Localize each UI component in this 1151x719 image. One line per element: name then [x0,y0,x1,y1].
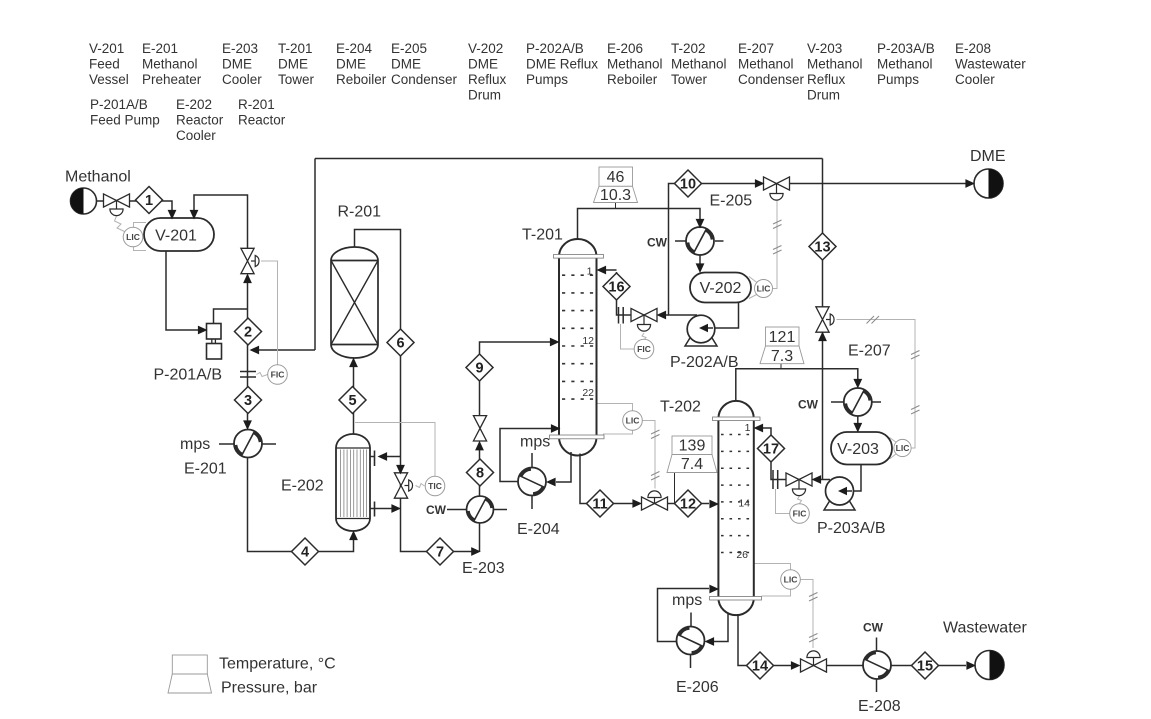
wire E-208 cw stubs [876,638,878,693]
arrow into wastewater connector [966,661,976,670]
wire FIC stream 16 sensing [621,324,635,349]
stream 16 diamond [603,273,630,300]
flag 46 / 10.3 [594,167,638,204]
svg-text:10.3: 10.3 [600,187,631,204]
svg-text:mps: mps [520,434,550,451]
svg-text:12: 12 [582,335,594,347]
svg-text:LIC: LIC [126,232,140,242]
svg-text:46: 46 [607,169,625,186]
wire T-202 overhead to E-207 [736,369,858,400]
header equipment title block [89,41,1026,143]
wire LIC V-203 taps [890,438,897,460]
wire TIC sensing line [355,423,435,477]
wire FIC stream 17 sensing [776,489,790,514]
instrument TIC reactor inlet [425,476,445,496]
stream 5 diamond [339,387,366,414]
arrow into E-207 [853,379,862,389]
arrow into E-202 top nozzle [378,452,388,461]
arrow E-202 outlet rejoins [391,504,401,513]
vessel V-203 [831,432,892,465]
svg-text:DME: DME [336,57,366,72]
svg-text:T-201: T-201 [278,41,313,56]
svg-text:V-202: V-202 [468,41,503,56]
svg-text:22: 22 [582,387,594,399]
svg-text:139: 139 [679,438,706,455]
svg-text:V-202: V-202 [700,280,742,297]
exchanger E-202 shell and tubes [336,434,375,531]
instrument LIC V-201 [123,227,143,247]
reactor R-201 [331,247,378,358]
wire E-204 mps stub [531,453,533,509]
arrow into E-202 bottom [349,531,358,541]
wire E-201 mps stubs [219,443,276,445]
svg-text:V-201: V-201 [89,41,124,56]
wire V-203 to P-203 suction [842,465,861,492]
arrow into reflux valve 16 [657,311,667,320]
arrow into V-202 [696,263,705,273]
svg-text:Methanol: Methanol [671,57,727,72]
wire E-205 cw stubs [675,240,724,242]
DME product connector [974,169,1003,198]
arrow T-201 reflux return [597,266,607,275]
wire E-205 to V-202 [699,255,701,264]
wire reflux stream 17 to T-202 [756,428,804,480]
arrows [168,179,976,670]
wire E-202 top stream 5 to R-201 [353,360,355,435]
svg-text:P-203A/B: P-203A/B [877,41,935,56]
wire FIC to spillback valve [261,261,278,365]
svg-text:4: 4 [301,545,309,561]
svg-text:LIC: LIC [626,416,640,426]
svg-text:LIC: LIC [784,575,798,585]
heat exchanger E-203 [467,496,494,523]
svg-text:Methanol: Methanol [142,57,198,72]
wire FIC to reflux 17 valve zigzag [798,496,802,504]
arrow into E-205 [696,219,705,229]
valve T-201 bottoms LIC valve [642,491,668,510]
arrow T-201 feed [550,338,560,347]
stream 8 diamond [467,459,494,486]
svg-text:Feed: Feed [89,57,120,72]
stream 11 diamond [587,490,614,517]
svg-text:Cooler: Cooler [176,128,216,143]
svg-text:E-204: E-204 [517,521,560,538]
flag 121 / 7.3 [760,327,804,365]
svg-text:16: 16 [608,280,624,296]
valve letdown manual valve stream 8-9 [473,416,486,441]
svg-text:Reboiler: Reboiler [607,72,658,87]
svg-text:P-203A/B: P-203A/B [817,520,885,537]
svg-text:Preheater: Preheater [142,72,202,87]
wire E-202 top nozzle branch [380,456,401,458]
svg-text:DME: DME [468,57,498,72]
arrow E-204 return to T-201 [551,424,561,433]
svg-text:Methanol: Methanol [738,57,794,72]
svg-text:7.3: 7.3 [771,348,793,365]
stream 9 diamond [466,354,493,381]
valve T-202 reflux FIC valve [786,473,812,496]
svg-text:Tower: Tower [278,72,315,87]
arrow into DME connector [965,179,975,188]
wire E-207 to V-203 [857,417,859,424]
svg-text:CW: CW [798,398,819,412]
valve V-201 spillback control valve [241,248,259,273]
wire LIC V-202 to DME valve [773,201,778,289]
svg-text:Cooler: Cooler [955,72,995,87]
arrow into E-204 [546,478,556,487]
svg-text:E-203: E-203 [462,560,505,577]
svg-text:E-208: E-208 [955,41,991,56]
svg-text:E-207: E-207 [738,41,774,56]
wire LIC to feed valve zigzag [115,216,125,232]
svg-text:Drum: Drum [807,88,840,103]
svg-text:E-204: E-204 [336,41,373,56]
svg-text:DME: DME [391,57,421,72]
valve E-202 bypass TIC valve [394,473,412,498]
svg-text:1: 1 [145,193,153,209]
stream 2 diamond [235,318,262,345]
instrument signal lines [115,201,916,649]
methanol feed connector [71,188,97,214]
wire V-201 bottom to P-201 suction [166,251,198,330]
pump P-202A/B [685,315,717,346]
stream 3 diamond [235,387,262,414]
svg-text:1: 1 [587,266,593,278]
wire LIC V-201 level taps [134,223,147,251]
instrument LIC T-202 [781,570,801,590]
pump P-201A/B duplex symbol [207,324,222,360]
svg-text:8: 8 [476,466,484,482]
svg-text:Wastewater: Wastewater [943,620,1028,637]
svg-text:Methanol: Methanol [877,57,933,72]
instrument LIC T-201 [623,411,643,431]
stream 6 diamond [387,329,414,356]
svg-text:LIC: LIC [757,284,771,294]
instrument line hash marks [651,220,920,642]
svg-text:Reactor: Reactor [176,113,224,128]
pump P-203A/B [824,477,855,510]
wire V-202 to P-202 suction [701,303,739,329]
svg-text:9: 9 [475,361,483,377]
svg-text:FIC: FIC [637,344,651,354]
stream 13 diamond [809,233,836,260]
arrow into V-201 nozzle 2 [190,210,199,220]
svg-text:FIC: FIC [793,509,807,519]
orifice plate stream 16 [619,307,624,324]
wire E-203 top through streams 8 and 9 to T-201 feed [480,342,558,496]
svg-text:Methanol: Methanol [607,57,663,72]
svg-text:E-206: E-206 [607,41,643,56]
wire LIC V-203 to recycle valve [837,320,916,449]
valve T-202 bottoms LIC valve [801,651,827,672]
svg-text:Wastewater: Wastewater [955,57,1026,72]
arrow recycle joins feed line [250,346,260,355]
valve T-201 reflux FIC valve [631,308,657,331]
svg-text:T-202: T-202 [660,399,701,416]
svg-text:1: 1 [745,422,751,434]
svg-text:Cooler: Cooler [222,72,262,87]
arrow into V-203 [853,423,862,433]
svg-text:E-203: E-203 [222,41,258,56]
wire T-201 sump to E-204 reboiler [556,452,571,482]
stream 14 diamond [747,652,774,679]
instrument FIC stream 17 [790,504,810,524]
wire reflux stream 16 to T-201 [606,270,669,315]
flag 139 / 7.4 [667,436,717,473]
svg-text:V-203: V-203 [807,41,842,56]
heat exchanger E-206 [677,627,705,655]
svg-text:CW: CW [426,503,447,517]
svg-text:Methanol: Methanol [807,57,863,72]
wire E-204 vapor return to T-201 [500,429,551,482]
arrow T-202 feed [709,500,719,509]
valve methanol recycle valve [816,307,834,332]
svg-text:Reactor: Reactor [238,113,286,128]
svg-text:DME: DME [278,57,308,72]
svg-text:Tower: Tower [671,72,708,87]
wire LIC V-202 taps [749,277,758,299]
vessel V-201 [144,218,214,251]
wire E-202 bottom nozzle return [375,508,399,510]
stream 1 diamond [136,187,163,214]
wire TIC to bypass valve zigzag [416,484,425,488]
svg-text:13: 13 [814,240,830,256]
svg-text:DME: DME [222,57,252,72]
svg-text:TIC: TIC [428,481,442,491]
svg-text:E-201: E-201 [184,461,227,478]
stream number diamonds [136,170,939,679]
arrow into E-206 [705,637,715,646]
svg-text:Vessel: Vessel [89,72,129,87]
valve feed control valve [104,194,130,216]
svg-text:Feed Pump: Feed Pump [90,113,160,128]
instrument FIC stream 3 [268,365,288,385]
svg-text:5: 5 [348,393,356,409]
arrow into P-201 suction [198,326,208,335]
svg-text:Reflux: Reflux [468,72,507,87]
instrument LIC V-203 [894,439,911,456]
arrow into wastewater valve [791,661,801,670]
svg-text:17: 17 [763,442,779,458]
wire LIC T-201 taps [598,404,633,435]
main labels [65,148,1028,715]
wire T-201 bottoms stream 11 to valve and T-202 [580,454,709,504]
heat exchanger E-201 [234,430,262,458]
wire LIC T-201 to bottoms valve [643,421,656,489]
wire T-202 sump to E-206 reboiler [707,614,728,642]
wire E-206 vapor return to T-202 [658,589,710,642]
wire P-202 discharge up to stream 10 and DME product [669,184,967,316]
svg-text:Drum: Drum [468,88,501,103]
svg-text:CW: CW [863,621,884,635]
wire E-203 cw stubs [447,509,507,511]
tower T-202 [710,401,762,615]
heat exchanger E-207 [844,388,872,416]
svg-text:E-202: E-202 [281,478,324,495]
vessel V-202 [690,273,751,303]
svg-text:14: 14 [752,659,768,675]
wire LIC T-202 taps [755,564,791,597]
wire into E-203 bottom [479,523,481,552]
valve DME product valve [764,177,790,200]
svg-text:DME: DME [970,148,1006,165]
tower T-201 [550,239,605,456]
svg-text:E-208: E-208 [858,698,901,715]
legend flag symbol [168,655,212,693]
wire methanol recycle loop top line [252,159,830,480]
svg-text:P-201A/B: P-201A/B [154,367,222,384]
svg-text:Methanol: Methanol [65,169,131,186]
svg-text:DME Reflux: DME Reflux [526,57,598,72]
orifice plate stream 2 [240,372,256,378]
svg-text:V-201: V-201 [155,228,197,245]
wire LIC T-202 to bottoms valve [801,580,814,649]
arrow into E-201 [243,420,252,430]
stream 10 diamond [675,170,702,197]
wire FIC to reflux valve zigzag [642,333,646,340]
svg-text:P-202A/B: P-202A/B [526,41,584,56]
arrow up into recycle valve [818,332,827,342]
svg-text:LIC: LIC [896,443,910,453]
svg-text:mps: mps [672,592,702,609]
svg-text:Pumps: Pumps [877,72,919,87]
wastewater product connector [975,651,1004,680]
svg-text:E-206: E-206 [676,679,719,696]
stream 4 diamond [292,538,319,565]
svg-text:Reboiler: Reboiler [336,72,387,87]
arrow T-202 reflux return [754,424,764,433]
svg-text:26: 26 [736,549,748,561]
arrow into R-201 bottom [349,358,358,368]
svg-text:R-201: R-201 [338,204,382,221]
svg-text:Pumps: Pumps [526,72,568,87]
stream 15 diamond [912,652,939,679]
wire recycle down into V-201 second nozzle [194,195,248,249]
svg-text:V-203: V-203 [837,441,879,458]
svg-text:6: 6 [396,336,404,352]
svg-text:10: 10 [680,177,696,193]
svg-text:7: 7 [436,545,444,561]
svg-text:mps: mps [180,436,210,453]
svg-text:E-201: E-201 [142,41,178,56]
stream 17 diamond [758,435,785,462]
svg-text:15: 15 [917,659,933,675]
arrow into TIC bypass valve [396,465,405,475]
wire spillback below valve to main line and down to E-201 [247,275,249,428]
svg-text:P-202A/B: P-202A/B [670,354,738,371]
wire R-201 effluent stream 6 down to E-202 bypass tee [355,230,479,552]
instrument FIC stream 16 [634,339,654,359]
wire T-202 bottoms stream 14 through valve E-208 to wastewater [738,614,966,666]
svg-text:T-202: T-202 [671,41,706,56]
heat exchanger E-208 [863,651,891,679]
stream 7 diamond [427,538,454,565]
svg-text:FIC: FIC [271,370,285,380]
svg-text:Pressure, bar: Pressure, bar [221,680,318,697]
svg-text:14: 14 [738,498,750,510]
orifice plate stream 17 [773,470,778,489]
arrow up into spillback valve [243,274,252,284]
heat exchanger E-205 [686,227,714,255]
svg-text:E-205: E-205 [710,193,753,210]
svg-text:P-201A/B: P-201A/B [90,97,148,112]
svg-text:3: 3 [244,393,252,409]
heat exchanger E-204 [518,468,546,496]
wire FIC orifice zigzag [257,373,268,377]
svg-text:121: 121 [769,329,796,346]
svg-text:R-201: R-201 [238,97,275,112]
arrow into DME valve [755,179,765,188]
process wires [97,159,967,693]
svg-text:E-202: E-202 [176,97,212,112]
wire flag stems [616,203,782,504]
arrow E-206 return to T-202 [709,585,719,594]
svg-text:2: 2 [244,325,252,341]
arrow into reflux valve 17 [812,475,822,484]
wire E-201 outlet stream 4 into E-202 [248,458,354,552]
stream 12 diamond [675,490,702,517]
svg-text:Condenser: Condenser [391,72,458,87]
wire valve to stream 1 to V-201 nozzle [129,201,172,218]
svg-text:Temperature, °C: Temperature, °C [219,656,336,673]
wire E-207 cw stubs [831,401,881,403]
arrow into bottoms valve [632,499,642,508]
svg-text:T-201: T-201 [522,227,563,244]
svg-text:E-207: E-207 [848,343,891,360]
wire T-201 overhead to E-205 [578,209,701,240]
svg-text:7.4: 7.4 [681,456,703,473]
svg-text:CW: CW [647,236,668,250]
arrow into letdown valve [475,441,484,451]
svg-text:12: 12 [680,497,696,513]
wire P-201 discharge up to main line [214,309,248,324]
instrument LIC V-202 [754,279,772,297]
svg-text:E-205: E-205 [391,41,427,56]
wire E-206 mps stubs [690,613,693,669]
wire methanol feed to valve [97,200,105,202]
arrow into V-201 nozzle 1 [168,210,177,220]
svg-text:Condenser: Condenser [738,72,805,87]
arrow stream 7 corner [471,547,481,556]
svg-text:11: 11 [592,497,607,513]
svg-text:Reflux: Reflux [807,72,846,87]
